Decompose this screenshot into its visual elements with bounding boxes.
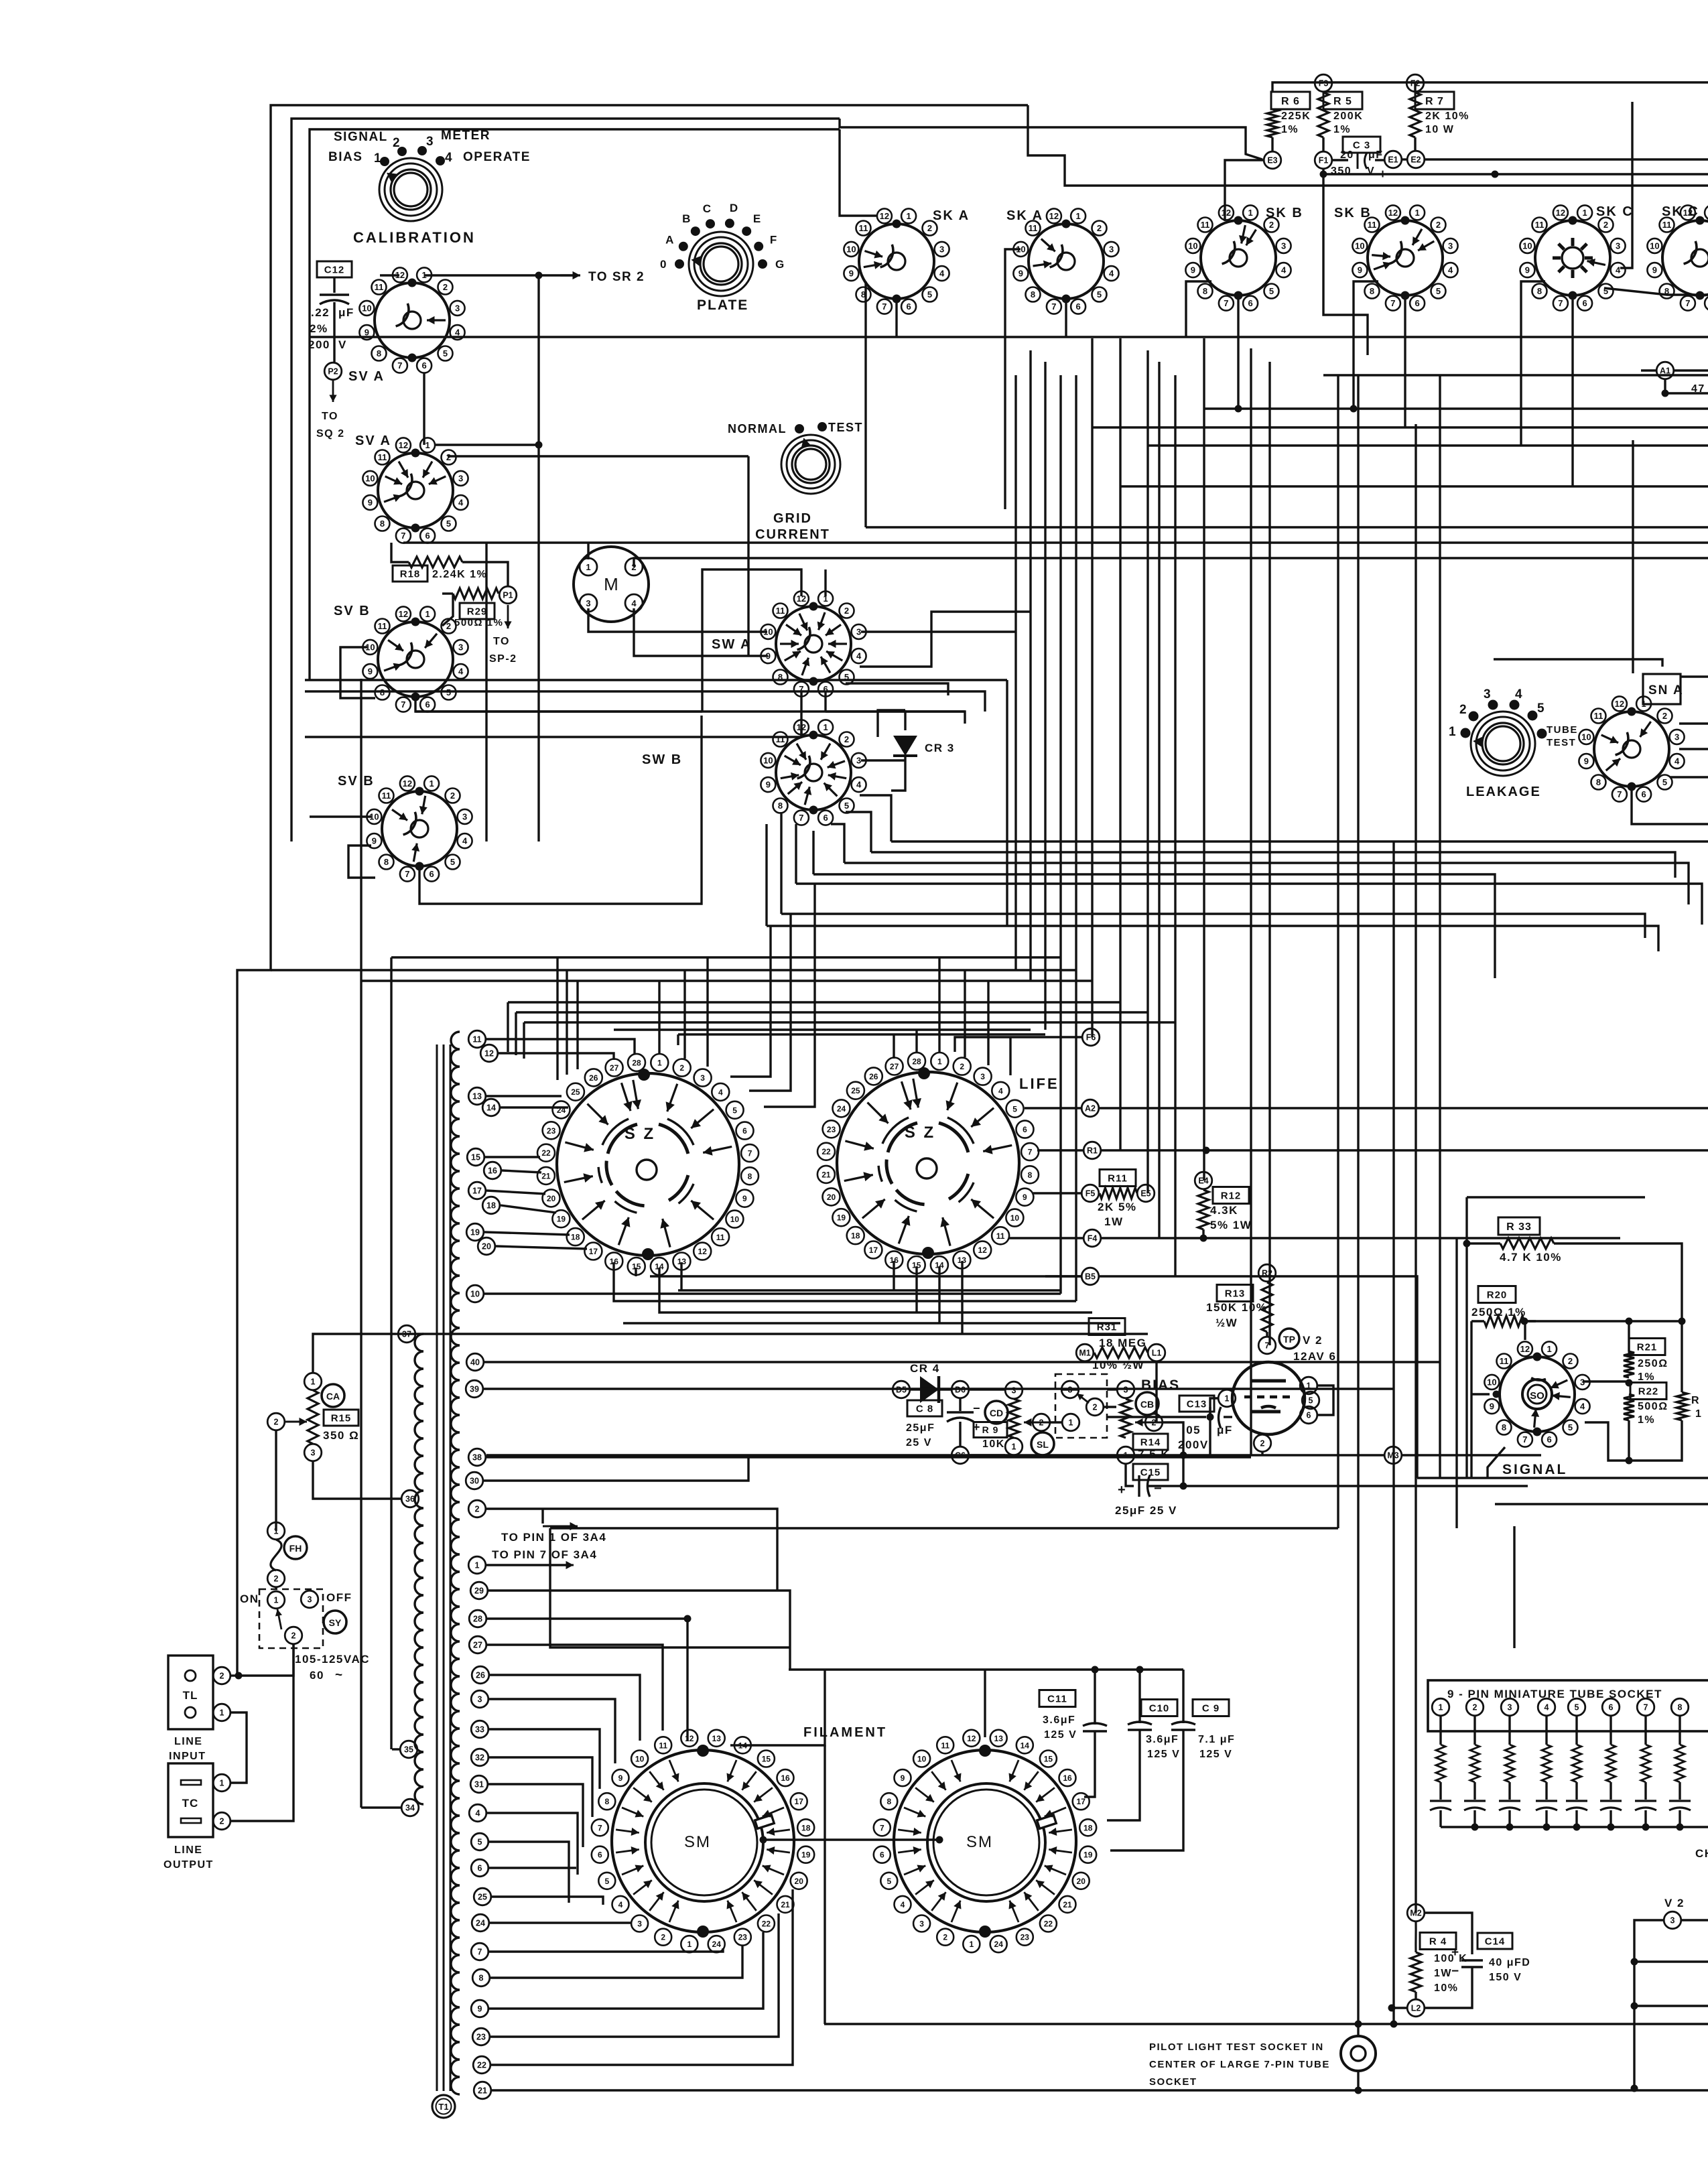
svg-text:6: 6 [1547,1434,1551,1444]
svg-text:5: 5 [1269,286,1274,296]
svg-text:1: 1 [429,779,434,789]
svg-text:18 MEG: 18 MEG [1099,1337,1146,1349]
wire bus verticals center [1006,680,1008,926]
svg-text:12: 12 [1049,211,1059,221]
socket SV B1 [378,622,453,697]
capacitor C15 [1133,1464,1168,1480]
vertical right edge drop [1631,102,1633,208]
svg-text:μF: μF [338,306,354,319]
svg-text:2: 2 [927,223,932,233]
svg-text:LINE: LINE [174,1736,202,1747]
switch SM2 [894,1750,1076,1932]
svg-text:19: 19 [470,1228,480,1237]
wire frame inner [291,119,840,841]
svg-text:SW A: SW A [712,637,751,652]
wires SY to TL [239,1644,293,1676]
svg-text:12: 12 [1615,699,1624,709]
svg-text:7: 7 [880,1823,884,1832]
svg-text:5: 5 [732,1105,737,1115]
wire SVB1 pin10 [340,647,375,698]
svg-text:28: 28 [473,1615,482,1624]
svg-text:5: 5 [927,289,932,299]
svg-text:2: 2 [844,734,849,744]
svg-text:2: 2 [1260,1439,1265,1448]
svg-text:LIFE: LIFE [1019,1075,1059,1092]
wire right bus rows [1204,407,1708,409]
svg-text:13: 13 [994,1734,1004,1743]
svg-text:SY: SY [329,1617,342,1628]
wire bus h503 [310,336,1708,338]
svg-text:11: 11 [659,1741,667,1750]
svg-text:8: 8 [748,1172,752,1181]
svg-text:TC: TC [182,1797,199,1810]
svg-text:3: 3 [939,244,944,254]
svg-text:28: 28 [912,1057,921,1066]
wires SO [1471,1393,1490,1395]
svg-text:10: 10 [1581,732,1591,742]
svg-text:M3: M3 [1387,1451,1398,1461]
svg-text:15: 15 [1044,1755,1053,1764]
svg-text:18: 18 [1083,1823,1093,1832]
resistor R22 [1630,1383,1666,1400]
svg-text:2: 2 [1269,220,1274,230]
svg-text:CB: CB [1140,1399,1154,1410]
svg-text:8: 8 [1537,286,1542,296]
svg-text:125 V: 125 V [1147,1749,1180,1760]
svg-text:10: 10 [730,1215,740,1224]
svg-text:7: 7 [1685,298,1690,308]
svg-text:V 2: V 2 [1303,1334,1323,1347]
svg-text:R12: R12 [1221,1190,1242,1201]
svg-text:3: 3 [1674,732,1679,742]
svg-text:2: 2 [1093,1403,1098,1412]
svg-text:SIGNAL: SIGNAL [1502,1462,1567,1477]
svg-text:10: 10 [1487,1377,1496,1387]
svg-text:1: 1 [1124,1451,1128,1461]
svg-text:27: 27 [610,1063,619,1073]
svg-text:12: 12 [685,1734,694,1743]
svg-text:11: 11 [1368,220,1377,230]
svg-text:27: 27 [473,1641,482,1650]
svg-text:2: 2 [1039,1418,1044,1428]
svg-text:225K: 225K [1281,111,1311,122]
wire frame outer [237,105,1028,1676]
wire SZ1 top stubs [658,981,660,1054]
svg-text:18: 18 [571,1233,580,1242]
svg-text:2: 2 [1436,220,1441,230]
svg-text:40 μFD: 40 μFD [1489,1957,1530,1968]
svg-text:7: 7 [1522,1434,1527,1444]
svg-text:C 8: C 8 [916,1403,933,1414]
svg-text:9: 9 [478,2005,482,2014]
svg-text:11: 11 [859,223,868,233]
svg-text:12: 12 [967,1734,976,1743]
svg-text:BIAS: BIAS [328,150,363,164]
svg-text:10 W: 10 W [1425,124,1454,135]
svg-text:14: 14 [935,1261,944,1270]
transformer T1 primary [415,1334,423,1804]
resistor R6 [1271,92,1310,109]
svg-text:3: 3 [1448,241,1453,251]
svg-text:1: 1 [274,1527,279,1536]
svg-text:23: 23 [738,1933,748,1942]
svg-text:25 V: 25 V [906,1437,932,1448]
svg-text:4: 4 [1545,1703,1549,1712]
svg-text:1: 1 [687,1940,692,1949]
svg-text:6: 6 [598,1850,602,1860]
svg-text:TO: TO [493,636,510,647]
node E3 [1264,151,1281,169]
svg-text:13: 13 [958,1256,967,1265]
svg-text:TO PIN 1 OF 3A4: TO PIN 1 OF 3A4 [501,1531,606,1544]
node A2 [1081,1099,1099,1117]
svg-text:1%: 1% [1281,124,1299,135]
wire V2 pin1 [1210,1398,1218,1417]
wires 29-24 to SM1 [488,1591,790,1670]
wire term1 arrow [486,1564,570,1566]
svg-text:10: 10 [917,1755,927,1764]
svg-text:6: 6 [906,301,911,312]
pot R15 CA [304,1373,322,1390]
svg-text:SL: SL [1037,1439,1049,1450]
node F5 [1081,1185,1099,1202]
svg-text:TO SR 2: TO SR 2 [588,270,645,284]
pilot light [1341,2036,1376,2071]
svg-text:2: 2 [450,791,455,801]
svg-text:2K 5%: 2K 5% [1098,1201,1137,1213]
svg-text:2: 2 [1662,711,1667,721]
svg-text:A: A [665,234,675,247]
svg-text:R21: R21 [1637,1341,1658,1353]
svg-text:2K 10%: 2K 10% [1425,111,1469,122]
svg-text:8: 8 [1370,286,1374,296]
wire C12 to SVA1 [333,277,335,293]
svg-text:6: 6 [1307,1411,1311,1420]
svg-text:μF: μF [1217,1424,1233,1436]
svg-text:CR 3: CR 3 [925,742,955,754]
svg-text:10: 10 [1188,241,1197,251]
svg-text:TEST: TEST [828,421,863,434]
svg-text:3: 3 [1012,1386,1016,1396]
resistor R7 [1415,92,1454,109]
svg-text:R 33: R 33 [1506,1221,1532,1233]
switch SZ2 [837,1072,1019,1254]
svg-text:47: 47 [1691,383,1705,395]
node F2 [1406,74,1424,92]
wire term2 arrow [486,1509,777,1591]
svg-text:12: 12 [399,440,408,450]
svg-text:R 7: R 7 [1425,96,1444,107]
svg-text:24: 24 [476,1919,485,1928]
svg-text:V: V [338,338,347,351]
svg-text:1W: 1W [1104,1215,1124,1228]
svg-text:9: 9 [368,498,373,508]
svg-text:S Z: S Z [905,1124,935,1142]
svg-text:11: 11 [941,1741,949,1750]
wire 40/39 [484,1361,1440,1363]
knob PLATE [689,232,753,296]
svg-text:4.3K: 4.3K [1210,1204,1238,1217]
svg-text:18: 18 [486,1201,496,1211]
svg-text:2%: 2% [310,322,328,335]
svg-text:33: 33 [475,1725,484,1735]
svg-text:11: 11 [1500,1356,1509,1366]
svg-text:11: 11 [996,1231,1005,1241]
resistor R5 [1323,92,1362,109]
svg-text:F: F [770,234,778,247]
svg-text:1: 1 [1012,1442,1016,1452]
svg-text:9: 9 [849,269,854,279]
svg-text:34: 34 [405,1804,415,1813]
svg-text:R 4: R 4 [1429,1936,1447,1947]
node 34 [401,1799,419,1816]
svg-text:1%: 1% [1333,124,1351,135]
pot CD / R9 [970,1388,1005,1390]
svg-text:21: 21 [478,2086,487,2096]
svg-text:7.5 K: 7.5 K [1138,1448,1170,1461]
svg-text:7: 7 [882,301,886,312]
svg-text:12AV 6: 12AV 6 [1293,1350,1336,1363]
svg-text:12: 12 [1520,1344,1530,1354]
svg-text:1: 1 [657,1059,662,1068]
svg-text:19: 19 [837,1213,846,1223]
svg-text:25: 25 [571,1087,580,1097]
capacitor C14 [1477,1933,1512,1949]
svg-text:F5: F5 [1086,1189,1096,1199]
wire bundle above SZ [614,1028,1031,1030]
svg-text:9: 9 [368,667,373,677]
svg-text:25: 25 [478,1893,487,1902]
svg-text:25: 25 [851,1086,860,1095]
wires SWA bottom [800,691,802,737]
svg-text:5: 5 [478,1838,482,1847]
svg-text:−: − [1154,1481,1163,1496]
svg-text:200K: 200K [1333,111,1363,122]
svg-text:CD: CD [990,1408,1003,1418]
wire bundle center h [891,840,1708,842]
node B5 [1081,1268,1099,1285]
svg-text:17: 17 [1077,1797,1086,1806]
tube V2 [1258,1337,1276,1354]
wire SM1-SM2 [763,1838,939,1840]
svg-text:M2: M2 [1410,1909,1421,1918]
svg-text:SK B: SK B [1334,206,1372,220]
svg-text:SK A: SK A [933,208,970,223]
svg-text:6: 6 [429,869,434,879]
svg-text:E2: E2 [1410,155,1421,165]
svg-text:11: 11 [1201,220,1210,230]
svg-text:9: 9 [901,1773,905,1783]
svg-text:3: 3 [462,811,467,821]
node A1 [1656,362,1674,379]
wire SVB1 bottom [415,698,702,712]
svg-text:2: 2 [960,1062,964,1071]
svg-text:TL: TL [183,1689,198,1702]
svg-text:B: B [682,212,692,225]
svg-text:7: 7 [748,1149,752,1158]
svg-text:14: 14 [486,1103,496,1113]
wires E row [1225,160,1263,221]
switch SY dashed [259,1589,323,1648]
knob GRID CURRENT [781,435,840,494]
svg-text:7: 7 [1644,1703,1648,1712]
svg-text:8: 8 [1203,286,1207,296]
svg-text:20: 20 [547,1194,556,1203]
node M3 [1384,1446,1402,1464]
svg-text:15: 15 [912,1261,921,1270]
svg-text:3: 3 [980,1072,985,1081]
svg-text:10: 10 [1650,241,1659,251]
wire top bus [310,129,840,680]
svg-text:500Ω: 500Ω [1638,1401,1668,1412]
svg-text:CURRENT: CURRENT [755,527,830,542]
svg-text:FH: FH [289,1543,302,1554]
pot CB / R14 [1136,1392,1159,1415]
svg-text:8: 8 [380,519,385,529]
svg-text:60: 60 [310,1669,324,1682]
svg-text:3: 3 [1109,244,1114,254]
svg-text:14: 14 [1021,1741,1030,1750]
svg-text:350 Ω: 350 Ω [323,1429,359,1442]
svg-text:13: 13 [677,1257,687,1266]
node D5 [893,1381,910,1398]
node C6 [951,1446,969,1464]
svg-text:2: 2 [393,136,401,150]
wire 9pin bus [1441,1826,1708,1828]
svg-text:10: 10 [470,1290,480,1299]
resistor R21 [1629,1339,1665,1355]
svg-text:10: 10 [1355,241,1364,251]
wires SNA [1679,748,1708,750]
resistor R11 [1100,1170,1136,1187]
svg-text:15: 15 [471,1153,480,1162]
svg-text:6: 6 [1075,301,1080,312]
svg-text:CR 4: CR 4 [910,1362,940,1375]
meter M [574,547,649,622]
svg-text:10K: 10K [982,1438,1005,1450]
svg-text:C14: C14 [1485,1936,1506,1947]
svg-text:1: 1 [1248,208,1252,218]
svg-text:GRID: GRID [773,511,812,526]
svg-text:1: 1 [1582,208,1587,218]
wire term10 [484,1292,1061,1294]
resistor R20 [1478,1286,1516,1303]
svg-text:11: 11 [378,452,387,462]
svg-text:E5: E5 [1140,1189,1151,1199]
svg-text:P2: P2 [328,367,338,377]
svg-text:8: 8 [1502,1422,1506,1432]
svg-text:3: 3 [1281,241,1286,251]
switch SW B [776,735,851,810]
svg-text:4: 4 [1281,265,1287,275]
svg-text:5: 5 [1568,1422,1573,1432]
node F1 [1315,151,1332,169]
socket SK B1 [1201,220,1276,295]
svg-text:TUBE: TUBE [1547,724,1578,736]
svg-text:C: C [703,202,712,215]
svg-text:1: 1 [1695,1408,1702,1420]
svg-text:5% 1W: 5% 1W [1210,1219,1252,1231]
svg-text:4: 4 [998,1086,1003,1095]
svg-text:L2: L2 [1411,2004,1421,2013]
svg-text:9 - PIN MINIATURE TUBE SOCK: 9 - PIN MINIATURE TUBE SOCKET [1447,1688,1662,1700]
svg-text:−: − [973,1402,981,1415]
svg-text:C12: C12 [324,264,345,275]
capacitor C12 [317,261,352,277]
svg-text:R29: R29 [467,606,488,617]
svg-text:12: 12 [698,1247,708,1256]
svg-text:7: 7 [1028,1148,1033,1157]
svg-text:OUTPUT: OUTPUT [163,1859,214,1871]
svg-text:250Ω: 250Ω [1638,1358,1668,1369]
svg-text:4: 4 [462,836,468,846]
capacitor C11 [1039,1690,1075,1707]
svg-text:7: 7 [1617,789,1622,799]
svg-text:5: 5 [886,1877,891,1886]
resistor R33 [1498,1217,1540,1235]
svg-text:M: M [604,574,618,594]
svg-text:23: 23 [1021,1933,1030,1942]
svg-text:10: 10 [635,1755,645,1764]
svg-text:9: 9 [766,651,771,661]
svg-text:25μF 25 V: 25μF 25 V [1115,1504,1177,1517]
socket SN A [1594,712,1669,787]
svg-text:1: 1 [906,211,911,221]
svg-text:1: 1 [1225,1394,1230,1404]
svg-text:20: 20 [1077,1877,1086,1886]
svg-text:22: 22 [541,1148,551,1158]
svg-text:1: 1 [823,722,828,732]
svg-text:38: 38 [472,1453,482,1463]
svg-text:17: 17 [472,1187,482,1196]
svg-text:12: 12 [880,211,889,221]
svg-text:7: 7 [598,1823,602,1832]
svg-text:9: 9 [372,836,377,846]
node 37 [398,1325,415,1343]
svg-text:22: 22 [1044,1919,1053,1929]
svg-text:8: 8 [604,1797,609,1806]
svg-text:10: 10 [365,473,375,483]
svg-text:9: 9 [1023,1193,1027,1202]
wires R15 [313,1334,398,1373]
socket SV A2 [378,453,453,528]
svg-text:25μF: 25μF [906,1422,935,1434]
svg-text:3: 3 [1484,687,1492,701]
svg-text:16: 16 [488,1166,497,1176]
svg-text:R 9: R 9 [982,1424,999,1435]
svg-text:A1: A1 [1660,366,1670,376]
svg-text:SM: SM [684,1833,711,1851]
svg-text:1: 1 [425,440,430,450]
svg-text:.05: .05 [1182,1424,1201,1436]
svg-text:6: 6 [1415,298,1419,308]
svg-text:4: 4 [1109,269,1114,279]
svg-text:18: 18 [851,1231,860,1241]
svg-text:9: 9 [1652,265,1657,275]
socket SV B2 [382,791,457,866]
svg-text:21: 21 [541,1171,551,1181]
wire right drop 2437 [1632,440,1634,673]
svg-text:6: 6 [1023,1125,1027,1134]
svg-text:SV A: SV A [348,369,385,384]
knob LEAKAGE [1471,712,1535,776]
svg-text:TO: TO [322,411,338,422]
svg-text:3: 3 [856,626,861,636]
svg-text:6: 6 [823,813,828,823]
wires SVB2 [310,815,371,817]
node R2 [1258,1264,1276,1282]
svg-text:9: 9 [618,1773,623,1783]
